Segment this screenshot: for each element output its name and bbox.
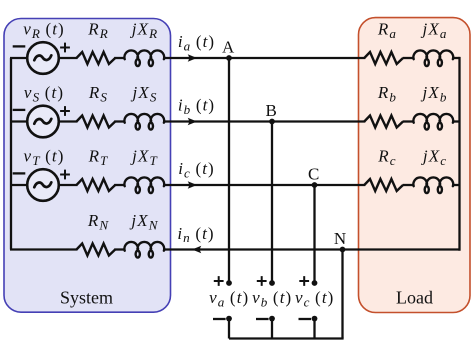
wire phase b to load bbox=[163, 120, 365, 122]
wire load resistor to inductor row a bbox=[403, 57, 415, 59]
load box bbox=[359, 18, 471, 313]
plus terminal v_c bbox=[312, 280, 318, 286]
wire right bus bbox=[458, 57, 460, 251]
svg-text:vS (t): vS (t) bbox=[24, 83, 64, 104]
plus sign source T bbox=[60, 170, 70, 180]
minus terminal v_b bbox=[269, 316, 275, 322]
wire node C drop bbox=[313, 185, 315, 283]
wire minus drop v_c bbox=[313, 319, 315, 339]
plus sign source S bbox=[60, 106, 70, 116]
wire source stub row b bbox=[10, 120, 27, 122]
minus sign source R bbox=[13, 45, 26, 47]
wire source to resistor row a bbox=[59, 57, 78, 59]
inductor jXS bbox=[124, 114, 164, 130]
wire resistor to inductor row b bbox=[114, 120, 125, 122]
wire left bus bbox=[10, 58, 12, 250]
plus terminal v_b bbox=[269, 280, 275, 286]
resistor RR bbox=[77, 52, 116, 64]
current arrow i_a bbox=[188, 54, 197, 61]
svg-text:N: N bbox=[334, 229, 346, 248]
svg-text:in (t): in (t) bbox=[177, 224, 214, 245]
minus sign source T bbox=[13, 172, 26, 174]
resistor Rb (load) bbox=[364, 116, 403, 128]
svg-text:vT (t): vT (t) bbox=[24, 147, 65, 168]
wire neutral resistor to inductor bbox=[114, 248, 125, 250]
wire node N drop bbox=[341, 250, 343, 339]
minus terminal v_c bbox=[312, 316, 318, 322]
node A bbox=[226, 55, 232, 61]
inductor jXc (load) bbox=[413, 177, 453, 193]
current arrow i_n bbox=[192, 246, 201, 253]
source VS bbox=[27, 106, 59, 138]
wire node B drop bbox=[271, 122, 273, 284]
wire bottom bus bbox=[229, 337, 344, 339]
wire source stub row c bbox=[10, 184, 27, 186]
svg-text:vR (t): vR (t) bbox=[23, 20, 65, 41]
wire load resistor to inductor row b bbox=[403, 120, 415, 122]
current arrow i_c bbox=[188, 181, 197, 188]
system box bbox=[4, 19, 171, 313]
minus sign source S bbox=[13, 109, 26, 111]
wire load resistor to inductor row c bbox=[403, 184, 415, 186]
resistor RS bbox=[77, 116, 116, 128]
current arrow i_b bbox=[188, 118, 197, 125]
node N bbox=[340, 247, 346, 253]
svg-text:va (t): va (t) bbox=[209, 288, 249, 309]
resistor RT bbox=[77, 179, 116, 191]
plus sign source R bbox=[60, 43, 70, 53]
svg-text:Load: Load bbox=[396, 288, 433, 308]
wire neutral to load bbox=[163, 248, 459, 250]
inductor jXN bbox=[124, 242, 164, 258]
wire minus drop v_a bbox=[228, 319, 230, 339]
source VR bbox=[27, 42, 59, 74]
wire phase c to load bbox=[163, 184, 365, 186]
plus terminal v_a bbox=[226, 280, 232, 286]
resistor Ra (load) bbox=[364, 52, 403, 64]
wire load row b to right bus bbox=[453, 120, 460, 122]
svg-text:ia (t): ia (t) bbox=[178, 32, 215, 53]
minus terminal v_a bbox=[226, 316, 232, 322]
inductor jXT bbox=[124, 177, 164, 193]
inductor jXa (load) bbox=[413, 50, 453, 66]
inductor jXb (load) bbox=[413, 114, 453, 130]
inductor jXR bbox=[124, 50, 164, 66]
wire source stub row a bbox=[10, 57, 27, 59]
wire source to resistor row b bbox=[59, 120, 78, 122]
source VT bbox=[27, 169, 59, 201]
svg-text:A: A bbox=[222, 38, 235, 57]
svg-text:ic (t): ic (t) bbox=[178, 159, 215, 180]
svg-text:vc (t): vc (t) bbox=[295, 288, 334, 309]
wire source to resistor row c bbox=[59, 184, 78, 186]
svg-text:ib (t): ib (t) bbox=[178, 96, 215, 117]
wire phase a to load bbox=[163, 57, 365, 59]
svg-text:B: B bbox=[266, 101, 277, 120]
wire neutral from bus to resistor bbox=[10, 248, 78, 250]
wire node A drop bbox=[228, 58, 230, 283]
wire minus drop v_b bbox=[271, 319, 273, 339]
wire resistor to inductor row c bbox=[114, 184, 125, 186]
resistor RN bbox=[77, 244, 116, 256]
svg-text:System: System bbox=[60, 288, 113, 308]
wire resistor to inductor row a bbox=[114, 57, 125, 59]
svg-text:vb (t): vb (t) bbox=[252, 288, 292, 309]
wire load row a to right bus bbox=[453, 57, 460, 59]
node C bbox=[312, 182, 318, 188]
resistor Rc (load) bbox=[364, 179, 403, 191]
node B bbox=[269, 119, 275, 125]
svg-text:C: C bbox=[308, 165, 319, 184]
wire load row c to right bus bbox=[453, 184, 460, 186]
